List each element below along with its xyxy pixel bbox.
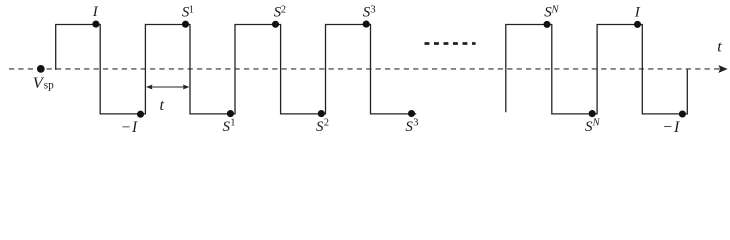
svg-text:I: I — [634, 4, 641, 20]
label S1 (bottom) — [223, 118, 236, 136]
node S2 (bottom) — [318, 110, 325, 117]
svg-text:S: S — [223, 119, 231, 135]
svg-text:t: t — [717, 39, 722, 56]
node -I (bottom, last) — [679, 110, 686, 117]
label S3 (top) — [363, 4, 376, 20]
node S3 (top) — [363, 21, 370, 28]
svg-text:2: 2 — [324, 118, 329, 129]
label -I (bottom, first) — [121, 119, 139, 136]
node S3 (bottom) — [408, 110, 415, 117]
label S2 (bottom) — [316, 118, 329, 136]
svg-text:2: 2 — [281, 4, 286, 15]
label I (top, last) — [634, 4, 641, 20]
continuation dashes (middle gap) — [425, 42, 476, 45]
svg-text:N: N — [592, 118, 601, 129]
axis arrowhead — [719, 66, 727, 73]
label SN (bottom) — [585, 118, 601, 136]
svg-text:−I: −I — [662, 119, 681, 136]
svg-text:1: 1 — [189, 4, 194, 15]
label S3 (bottom) — [405, 118, 418, 136]
svg-text:3: 3 — [370, 4, 375, 15]
svg-text:I: I — [92, 4, 99, 20]
node SN (top) — [543, 21, 550, 28]
axis label t — [717, 39, 722, 56]
node -I (bottom, first) — [137, 111, 144, 118]
node Vsp (dot on axis) — [37, 65, 45, 73]
svg-text:S: S — [405, 119, 413, 135]
svg-text:3: 3 — [413, 118, 418, 129]
label Vsp — [33, 73, 54, 92]
svg-text:N: N — [551, 4, 560, 15]
interval label t — [160, 97, 165, 114]
interval marker arrow (double-headed) — [146, 85, 189, 90]
node S2 (top) — [272, 21, 279, 28]
svg-text:−I: −I — [121, 119, 139, 136]
label S2 (top) — [274, 4, 286, 20]
node SN (bottom) — [589, 110, 596, 117]
node S1 (bottom) — [227, 110, 234, 117]
node I (top, last) — [634, 21, 641, 28]
svg-text:sp: sp — [44, 80, 54, 92]
wire: square wave left section — [56, 25, 417, 114]
wire: square wave right section — [506, 25, 688, 114]
svg-text:t: t — [160, 97, 165, 114]
svg-text:1: 1 — [230, 118, 235, 129]
label S1 (top) — [182, 4, 194, 20]
label -I (bottom, last) — [662, 119, 681, 136]
label SN (top) — [544, 4, 559, 20]
label I (top, first) — [92, 4, 99, 20]
svg-text:S: S — [316, 119, 324, 135]
node I (top, first) — [92, 21, 99, 28]
time axis (dashed) — [9, 68, 719, 70]
node S1 (top) — [182, 21, 189, 28]
